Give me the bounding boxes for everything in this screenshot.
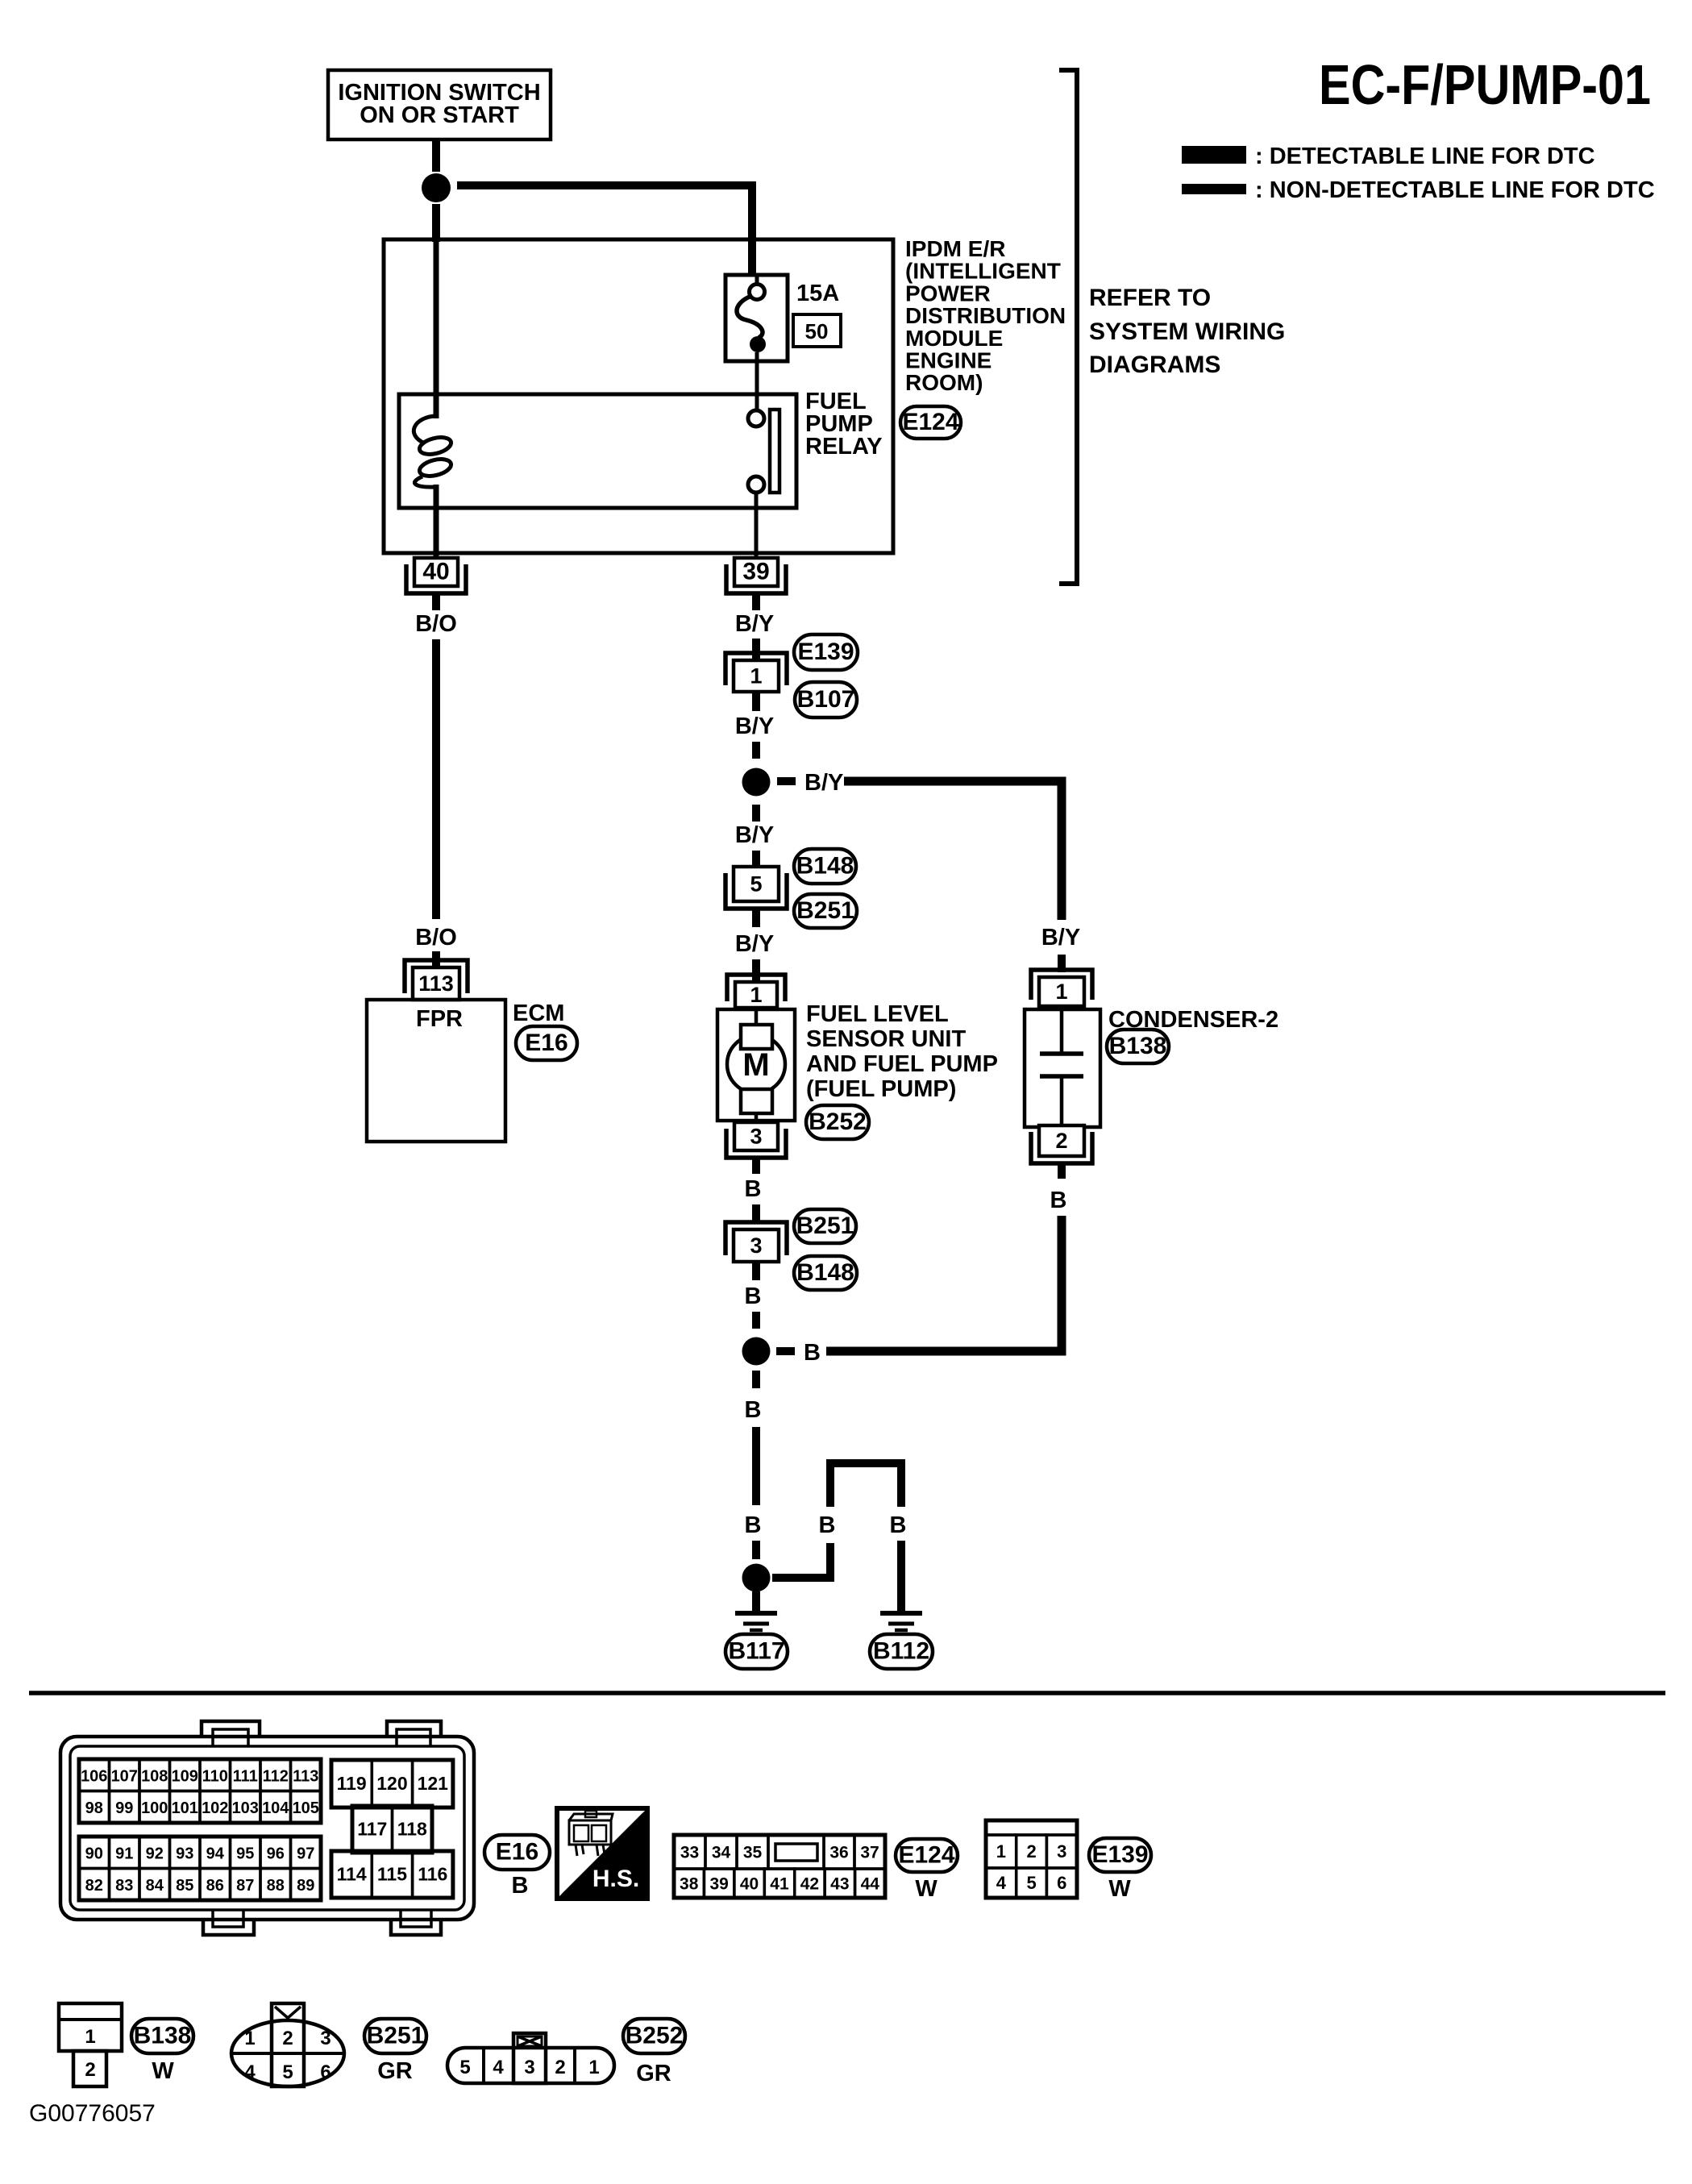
svg-text:AND FUEL PUMP: AND FUEL PUMP (806, 1051, 998, 1077)
svg-text:2: 2 (555, 2057, 565, 2078)
wire dash above junction (752, 742, 760, 759)
svg-text:E124: E124 (902, 409, 958, 435)
wire label B (loop right leg) (890, 1512, 907, 1538)
svg-text:B/Y: B/Y (1041, 925, 1080, 951)
pin 39 (IPDM) (726, 558, 786, 593)
svg-text:MODULE: MODULE (905, 326, 1003, 351)
wire label B/Y (above junction) (735, 713, 774, 739)
fuse label 15A (796, 281, 839, 306)
svg-text:104: 104 (262, 1799, 289, 1817)
svg-text:B/O: B/O (415, 925, 457, 951)
wire into fuel pump pin 1 (752, 959, 760, 982)
svg-text:REFER TO: REFER TO (1089, 285, 1211, 311)
connector id B107 (inline) (795, 682, 857, 718)
svg-text:FUEL LEVEL: FUEL LEVEL (806, 1001, 949, 1027)
separator line (29, 1691, 1665, 1695)
IPDM label block (905, 236, 1066, 395)
svg-text:B138: B138 (134, 2023, 192, 2049)
wire dash above lower junction (752, 1312, 760, 1329)
svg-text:3: 3 (750, 1233, 762, 1258)
svg-text:87: 87 (236, 1877, 254, 1895)
svg-text:1: 1 (750, 983, 762, 1007)
wire into connector 5 (752, 851, 760, 867)
label FUEL PUMP RELAY (805, 389, 883, 460)
svg-text:83: 83 (115, 1877, 133, 1895)
wire condenser down to lower junction (826, 1216, 1062, 1351)
relay coil (414, 416, 452, 487)
wire label B/O (upper) (415, 611, 457, 637)
E16 pin block upper (106-113 / 98-105) (79, 1759, 321, 1823)
ground junction node (742, 1564, 771, 1592)
wire label B/Y (above condenser) (1041, 925, 1080, 951)
svg-text:121: 121 (418, 1773, 449, 1794)
svg-text:B: B (512, 1873, 529, 1899)
svg-text:5: 5 (750, 872, 762, 896)
connector id E16 (516, 1026, 577, 1060)
svg-text:1: 1 (750, 664, 762, 688)
svg-text:(FUEL PUMP): (FUEL PUMP) (806, 1076, 956, 1102)
svg-text:B138: B138 (1109, 1033, 1167, 1059)
wire dash above connector 3 (752, 1204, 760, 1222)
svg-text:15A: 15A (796, 281, 839, 306)
svg-text:110: 110 (202, 1767, 228, 1785)
svg-text:33: 33 (680, 1844, 699, 1862)
inline connector pin 3 (B251/B148) (725, 1222, 787, 1262)
svg-text:SYSTEM WIRING: SYSTEM WIRING (1089, 318, 1285, 345)
connector id B252 (bottom) (623, 2019, 685, 2053)
wire label B (branch) (804, 1340, 821, 1366)
svg-text:B251: B251 (796, 1213, 854, 1239)
wire ignition switch to junction (432, 139, 440, 172)
connector id B251 (bottom) (364, 2019, 426, 2053)
wire into condenser pin 1 (1058, 955, 1066, 972)
wire dash right of lower junction (776, 1347, 795, 1355)
svg-text:103: 103 (232, 1799, 259, 1817)
svg-text:GR: GR (377, 2058, 413, 2084)
label CONDENSER-2 (1108, 1007, 1278, 1033)
svg-text:DISTRIBUTION: DISTRIBUTION (905, 303, 1066, 328)
svg-text:4: 4 (244, 2061, 256, 2083)
svg-text:34: 34 (712, 1844, 731, 1862)
svg-text:1: 1 (1055, 980, 1067, 1004)
svg-text:113: 113 (418, 971, 454, 996)
svg-text:3: 3 (1057, 1841, 1066, 1862)
svg-text:B117: B117 (728, 1638, 784, 1665)
svg-text:101: 101 (172, 1799, 198, 1817)
E16 pin block 119-121 (331, 1760, 453, 1808)
wire label B/Y (above connector 5) (735, 822, 774, 848)
inline connector pin 5 (B148/B251) (725, 867, 787, 909)
svg-text:B/Y: B/Y (735, 611, 774, 637)
wire stub below connector 1 (752, 692, 760, 711)
svg-text:96: 96 (267, 1845, 285, 1862)
B138 colour label W (152, 2058, 174, 2084)
svg-text:44: 44 (861, 1875, 880, 1894)
svg-text:37: 37 (860, 1844, 879, 1862)
svg-text:W: W (915, 1876, 937, 1902)
svg-text:91: 91 (115, 1845, 133, 1862)
svg-text:ENGINE: ENGINE (905, 348, 992, 373)
wire label B (loop left leg) (819, 1512, 836, 1538)
svg-text:118: 118 (397, 1819, 427, 1840)
wire stub below condenser pin 2 (1058, 1163, 1066, 1179)
svg-text:B/Y: B/Y (735, 713, 774, 739)
svg-text:IPDM E/R: IPDM E/R (905, 236, 1005, 261)
svg-text:G00776057: G00776057 (29, 2100, 156, 2127)
svg-text:6: 6 (1057, 1873, 1066, 1893)
svg-text:97: 97 (297, 1845, 314, 1862)
wire IPDM top to relay coil (434, 242, 439, 418)
svg-text:108: 108 (141, 1767, 168, 1785)
relay contact top (748, 410, 764, 426)
svg-text:36: 36 (829, 1844, 848, 1862)
connector id E139 (bottom) (1089, 1838, 1151, 1872)
svg-text:90: 90 (85, 1845, 103, 1862)
svg-text:43: 43 (830, 1875, 849, 1894)
svg-text:5: 5 (282, 2061, 293, 2083)
wire branch to condenser (down right) (844, 781, 1062, 920)
svg-text:B107: B107 (797, 686, 855, 713)
svg-text:B148: B148 (796, 1259, 854, 1286)
label FUEL LEVEL SENSOR UNIT AND FUEL PUMP (FUEL PUMP) (806, 1001, 998, 1102)
svg-text:B: B (745, 1283, 762, 1309)
svg-text:84: 84 (146, 1877, 164, 1895)
E124 pin grid (33-44) (674, 1835, 885, 1898)
connector id B148 (inline upper) (794, 849, 856, 884)
svg-text:98: 98 (85, 1799, 103, 1817)
refer-to bracket (1059, 70, 1077, 584)
B252 connector drawing (447, 2033, 614, 2083)
svg-text:B: B (745, 1512, 762, 1538)
lower junction node B (742, 1337, 771, 1366)
wire dash below lower junction (752, 1371, 760, 1388)
svg-text:94: 94 (206, 1845, 225, 1862)
svg-text:ECM: ECM (513, 1000, 564, 1026)
svg-text:39: 39 (742, 559, 769, 585)
svg-text:2: 2 (1026, 1841, 1036, 1862)
svg-text:4: 4 (493, 2057, 504, 2078)
B251 connector drawing (231, 2003, 344, 2086)
svg-text:B252: B252 (626, 2023, 684, 2049)
svg-text:102: 102 (202, 1799, 228, 1817)
title EC-F/PUMP-01 (1319, 53, 1651, 116)
E124 colour label W (915, 1876, 937, 1902)
wire label B/O (lower) (415, 925, 457, 951)
wire into connector 1 (752, 639, 760, 659)
svg-text:39: 39 (709, 1875, 728, 1894)
svg-text:117: 117 (357, 1819, 387, 1840)
svg-text:H.S.: H.S. (592, 1866, 639, 1892)
svg-text:B: B (745, 1176, 762, 1202)
svg-text:ON OR START: ON OR START (360, 102, 519, 128)
fuel pump pin 1 (727, 975, 785, 1008)
svg-text:119: 119 (337, 1773, 367, 1794)
svg-text:2: 2 (85, 2059, 95, 2081)
svg-text:B: B (1050, 1188, 1067, 1213)
E16 pin block 117-118 (352, 1806, 432, 1853)
ground symbol B117 (735, 1613, 777, 1630)
pin 113 (ECM) (405, 960, 468, 1000)
svg-text:B148: B148 (796, 853, 854, 880)
svg-text:95: 95 (236, 1845, 254, 1862)
svg-text:3: 3 (320, 2028, 331, 2049)
power source box IGNITION SWITCH ON OR START (328, 70, 551, 139)
pin 40 (IPDM) (406, 558, 466, 593)
svg-text:1: 1 (85, 2026, 95, 2048)
fuse 15A (725, 275, 788, 361)
wire B/O long run (432, 639, 440, 919)
E139 pin grid (1-6) (986, 1820, 1077, 1898)
svg-text:ROOM): ROOM) (905, 370, 983, 395)
svg-text:EC-F/PUMP-01: EC-F/PUMP-01 (1319, 53, 1651, 116)
wire stub below connector 3 (752, 1262, 760, 1280)
svg-text:113: 113 (293, 1767, 318, 1785)
svg-text:B/Y: B/Y (804, 770, 843, 796)
svg-text:DIAGRAMS: DIAGRAMS (1089, 352, 1220, 378)
svg-text:86: 86 (206, 1877, 224, 1895)
svg-text:E16: E16 (496, 1839, 538, 1866)
svg-text:B/Y: B/Y (735, 931, 774, 957)
wire relay coil to pin 40 (434, 485, 439, 560)
svg-text:RELAY: RELAY (805, 434, 883, 460)
svg-text:120: 120 (376, 1773, 407, 1794)
ground id B112 (870, 1634, 933, 1669)
svg-text:B251: B251 (796, 897, 854, 924)
svg-text:3: 3 (750, 1125, 762, 1149)
svg-text:2: 2 (1055, 1129, 1067, 1153)
wire label B (mid) (745, 1397, 762, 1423)
wire stub below pin 40 (432, 594, 440, 610)
wire fuse to relay contact (755, 352, 759, 410)
svg-text:: NON-DETECTABLE LINE FOR DTC: : NON-DETECTABLE LINE FOR DTC (1255, 177, 1655, 203)
svg-text:41: 41 (770, 1875, 789, 1894)
wire stub below pin 39 (752, 594, 760, 610)
svg-text:B: B (819, 1512, 836, 1538)
connector id E16 (bottom) (484, 1835, 550, 1870)
connector id E124 (IPDM) (900, 406, 961, 439)
fuse number 50 (793, 314, 841, 347)
wire relay contact to pin 39 (755, 493, 759, 560)
junction node B/Y (742, 768, 771, 797)
fuel pump relay box (399, 394, 796, 508)
svg-text:116: 116 (418, 1864, 447, 1885)
svg-text:82: 82 (85, 1877, 103, 1895)
condenser pin 1 (1031, 970, 1092, 1006)
svg-text:B: B (745, 1397, 762, 1423)
svg-text:50: 50 (805, 319, 829, 343)
svg-text:SENSOR UNIT: SENSOR UNIT (806, 1026, 966, 1052)
svg-text:1: 1 (996, 1841, 1006, 1862)
wire junction to B112 loop (772, 1543, 830, 1578)
E139 colour label W (1108, 1876, 1131, 1902)
svg-text:B251: B251 (367, 2023, 425, 2049)
wire label B (left leg) (745, 1512, 762, 1538)
E16 pin block lower (90-97 / 82-89) (79, 1837, 321, 1900)
connector id B251 (inline lower) (794, 894, 857, 928)
wire junction to ground B117 (752, 1591, 760, 1611)
svg-text:1: 1 (588, 2057, 599, 2078)
svg-text:E139: E139 (1091, 1841, 1148, 1868)
wire dash above ground junction (752, 1541, 760, 1559)
svg-text:FPR: FPR (416, 1006, 463, 1032)
svg-text:107: 107 (111, 1767, 138, 1785)
wire loop over (inverted U) (830, 1463, 901, 1507)
svg-text:40: 40 (740, 1875, 759, 1894)
E16 colour label B (512, 1873, 529, 1899)
svg-text:B112: B112 (873, 1638, 929, 1665)
svg-text:109: 109 (172, 1767, 198, 1785)
wire stub below connector 5 (752, 909, 760, 927)
svg-text:115: 115 (377, 1864, 407, 1885)
junction node (ignition feed) (422, 173, 451, 202)
svg-text:E139: E139 (797, 639, 854, 665)
svg-text:GR: GR (636, 2061, 671, 2086)
wire stub below fuel pump pin 3 (752, 1159, 760, 1174)
svg-text:88: 88 (267, 1877, 285, 1895)
svg-text:4: 4 (996, 1873, 1007, 1893)
B138 connector drawing (59, 2003, 122, 2086)
svg-text:B252: B252 (809, 1109, 867, 1135)
svg-text:105: 105 (293, 1799, 319, 1817)
fuel pump body (motor M) (717, 1009, 795, 1122)
ECM box with FPR (367, 1000, 505, 1142)
svg-text:B/Y: B/Y (735, 822, 774, 848)
wire label B/Y (below pin 39) (735, 611, 774, 637)
svg-text:92: 92 (146, 1845, 164, 1862)
wire junction to fuse (branch) (457, 185, 752, 275)
label ECM (513, 1000, 564, 1026)
svg-text:112: 112 (263, 1767, 289, 1785)
svg-text:E16: E16 (525, 1030, 567, 1056)
wire label B/Y (above fuel pump) (735, 931, 774, 957)
note REFER TO SYSTEM WIRING DIAGRAMS (1089, 285, 1285, 378)
ground symbol B112 (880, 1613, 922, 1630)
svg-text:89: 89 (297, 1877, 314, 1895)
svg-text:B: B (804, 1340, 821, 1366)
IPDM E/R box (384, 239, 893, 553)
relay contact bottom (748, 476, 764, 493)
svg-text:100: 100 (141, 1799, 168, 1817)
wire down to ground junction (752, 1427, 760, 1505)
svg-text:3: 3 (524, 2057, 534, 2078)
svg-text:POWER: POWER (905, 281, 991, 306)
H.S. (harness side) icon (557, 1808, 647, 1899)
connector id B251 (inline upper) (794, 1209, 856, 1243)
ground id B117 (725, 1634, 788, 1669)
svg-text:M: M (742, 1047, 769, 1083)
svg-text:B/O: B/O (415, 611, 457, 637)
svg-text:(INTELLIGENT: (INTELLIGENT (905, 259, 1061, 284)
wire stub above pin 113 (432, 951, 440, 967)
inline connector pin 1 (E139/B107) (725, 653, 787, 692)
wire right leg to ground B112 (897, 1541, 905, 1611)
svg-text:W: W (152, 2058, 174, 2084)
connector id B148 (inline lower) (794, 1256, 857, 1290)
svg-text:W: W (1108, 1876, 1131, 1902)
svg-text:5: 5 (459, 2057, 470, 2078)
fuel pump pin 3 (726, 1122, 786, 1158)
svg-text:106: 106 (81, 1767, 107, 1785)
svg-text:: DETECTABLE LINE FOR DTC: : DETECTABLE LINE FOR DTC (1255, 144, 1595, 169)
connector id B252 (fuel pump) (806, 1105, 869, 1139)
B252 colour label GR (636, 2061, 671, 2086)
svg-text:6: 6 (320, 2061, 331, 2083)
svg-text:B: B (890, 1512, 907, 1538)
wire label B/Y (branch) (804, 770, 843, 796)
wire label B (condenser) (1050, 1188, 1067, 1213)
svg-text:99: 99 (115, 1799, 133, 1817)
relay contact blade (770, 410, 779, 493)
connector id B138 (condenser) (1107, 1030, 1169, 1063)
wire junction down into IPDM (432, 204, 440, 242)
wire dash right of junction (777, 777, 796, 785)
wire label B (below pump) (745, 1176, 762, 1202)
B251 colour label GR (377, 2058, 413, 2084)
wire into fuse (inside IPDM) (755, 275, 759, 285)
ECM connector E16 shell (60, 1721, 474, 1935)
svg-text:38: 38 (680, 1875, 699, 1894)
E16 pin block 114-116 (331, 1851, 453, 1898)
wire label B (above lower junction) (745, 1283, 762, 1309)
svg-text:5: 5 (1026, 1873, 1036, 1893)
svg-text:2: 2 (282, 2028, 293, 2049)
svg-text:E124: E124 (898, 1842, 954, 1869)
connector id E139 (inline) (794, 634, 858, 670)
condenser-2 body (capacitor) (1025, 1009, 1100, 1127)
svg-text:114: 114 (337, 1864, 367, 1885)
connector id E124 (bottom) (896, 1839, 958, 1872)
legend: non-detectable line for DTC (1182, 177, 1655, 203)
svg-text:35: 35 (743, 1844, 763, 1862)
legend: detectable line for DTC (1182, 144, 1595, 169)
condenser pin 2 (1031, 1125, 1092, 1163)
svg-text:111: 111 (233, 1767, 258, 1785)
svg-text:42: 42 (800, 1875, 819, 1894)
svg-text:1: 1 (244, 2028, 255, 2049)
svg-text:85: 85 (176, 1877, 193, 1895)
svg-text:93: 93 (176, 1845, 193, 1862)
figure number G00776057 (29, 2100, 156, 2127)
connector id B138 (bottom) (131, 2019, 193, 2053)
wire dash below junction (752, 805, 760, 822)
svg-text:40: 40 (422, 559, 449, 585)
